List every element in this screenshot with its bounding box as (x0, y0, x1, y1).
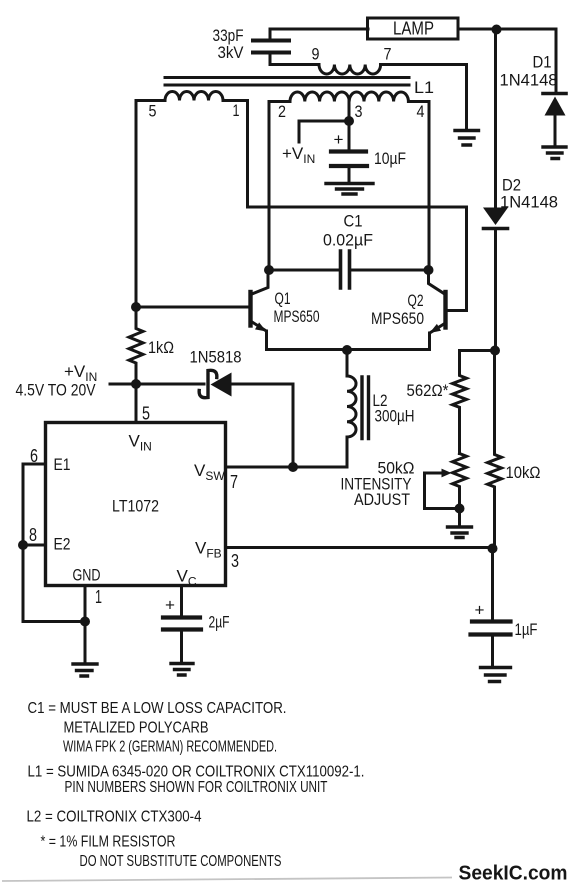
wire +VIN stub (299, 121, 349, 142)
svg-text:Q2: Q2 (408, 291, 424, 310)
svg-text:MPS650: MPS650 (274, 307, 320, 326)
diode D1 1N4148 (543, 29, 566, 147)
ground 2uF (171, 664, 193, 676)
wire +VIN node to diode (136, 383, 204, 386)
wire Q1 base (136, 306, 251, 309)
wire GND pin (84, 586, 87, 664)
svg-text:562Ω*: 562Ω* (407, 381, 449, 400)
op-amp U1 LT1072 box (46, 423, 226, 586)
wire 562 top connect (460, 349, 496, 352)
svg-text:5: 5 (149, 102, 157, 121)
ground pot (448, 527, 472, 538)
svg-text:E2: E2 (54, 535, 71, 554)
svg-text:0.02µF: 0.02µF (323, 231, 373, 250)
diode D3 1N5818 (199, 370, 293, 467)
svg-text:DO NOT SUBSTITUTE COMPONENTS: DO NOT SUBSTITUTE COMPONENTS (80, 853, 282, 870)
wire pin2 down to C1 left (268, 102, 271, 271)
svg-text:3kV: 3kV (218, 43, 245, 62)
svg-text:10kΩ: 10kΩ (506, 463, 541, 482)
potentiometer 50k (425, 454, 467, 509)
node pot bottom (455, 504, 465, 514)
svg-text:10µF: 10µF (374, 149, 406, 168)
wire 33pF to winding pin 9 (270, 63, 319, 66)
svg-text:E1: E1 (54, 455, 71, 474)
wire pin7 to ground (381, 65, 467, 131)
resistor 1k (129, 307, 143, 384)
svg-text:1N4148: 1N4148 (500, 193, 558, 212)
wire pin1 down and across to Q2 base riser (248, 101, 467, 311)
transistor Q2 MPS650 (429, 270, 449, 350)
node L2 top (342, 345, 352, 355)
svg-text:LAMP: LAMP (393, 19, 434, 39)
ground pin7 wire (455, 131, 479, 146)
node center tap (344, 116, 354, 126)
transformer L1 core (165, 78, 409, 86)
wire top left to LAMP (270, 28, 368, 31)
svg-text:C1: C1 (344, 212, 363, 231)
svg-text:1N4148: 1N4148 (500, 71, 558, 90)
svg-text:7: 7 (230, 472, 238, 492)
inductor L2 300uH (347, 350, 356, 467)
svg-text:1µF: 1µF (515, 620, 538, 639)
node top-right junction (492, 25, 502, 35)
node E2 (18, 540, 28, 550)
inductor L2 core (362, 377, 369, 439)
wire emitters bottom (267, 348, 430, 351)
svg-text:4: 4 (417, 102, 425, 121)
svg-text:3: 3 (355, 102, 363, 121)
svg-text:1: 1 (95, 587, 102, 607)
svg-text:WIMA FPK 2 (GERMAN) RECOMMENDE: WIMA FPK 2 (GERMAN) RECOMMENDED. (63, 739, 277, 756)
svg-text:C1 = MUST BE A LOW LOSS CAPACI: C1 = MUST BE A LOW LOSS CAPACITOR. (28, 700, 287, 717)
svg-text:* = 1% FILM RESISTOR: * = 1% FILM RESISTOR (41, 834, 176, 851)
diode D2 1N4148 (483, 208, 508, 351)
svg-text:D1: D1 (533, 53, 552, 72)
capacitor C1 0.02uF (269, 251, 429, 288)
svg-text:2µF: 2µF (209, 613, 230, 632)
svg-text:6: 6 (30, 446, 38, 466)
svg-text:1: 1 (233, 101, 240, 120)
wire L2 bottom to VSW (226, 466, 348, 469)
svg-text:MPS650: MPS650 (371, 309, 424, 328)
node right column (490, 346, 500, 356)
wire pot to ground (458, 509, 461, 527)
wire pin5 side down to Q1 base node (135, 101, 138, 308)
wire D2 column (494, 30, 497, 208)
transistor Q1 MPS650 (251, 270, 269, 350)
transformer L1 winding 2-3-4 (269, 92, 429, 102)
resistor 562 (453, 351, 467, 454)
svg-text:1N5818: 1N5818 (190, 348, 242, 367)
node VSW junction (288, 462, 298, 472)
svg-text:METALIZED POLYCARB: METALIZED POLYCARB (64, 720, 209, 737)
ground 10uF (326, 184, 373, 195)
svg-text:5: 5 (142, 404, 150, 424)
wire E1-E2 loop to gnd (23, 464, 85, 622)
svg-text:L2 = COILTRONIX CTX300-4: L2 = COILTRONIX CTX300-4 (27, 809, 202, 826)
wire pin5 VIN (135, 384, 138, 423)
svg-text:4.5V TO 20V: 4.5V TO 20V (16, 381, 97, 400)
transformer L1 winding 5-1 (136, 92, 248, 101)
node C1 right (424, 265, 434, 275)
node Q1 base / 1k top (131, 302, 141, 312)
wire LAMP to D1 column (458, 28, 556, 31)
svg-text:PIN NUMBERS SHOWN FOR COILTRON: PIN NUMBERS SHOWN FOR COILTRONIX UNIT (65, 779, 328, 796)
transformer L1 winding 9-7 (319, 65, 381, 75)
capacitor 33pF 3kV (253, 29, 289, 65)
capacitor 2uF (163, 586, 201, 663)
resistor 10k (488, 351, 502, 549)
ground GND pin (73, 664, 97, 676)
svg-text:Q1: Q1 (275, 289, 291, 308)
svg-text:+: + (475, 601, 485, 620)
LAMP box (368, 18, 459, 39)
capacitor 1uF (471, 549, 511, 668)
node GND join (80, 617, 90, 627)
node VFB junction (488, 544, 498, 554)
svg-text:2: 2 (278, 102, 286, 121)
svg-text:SeekIC.com: SeekIC.com (459, 863, 568, 885)
wire +VIN input lead (110, 383, 136, 386)
svg-text:+: + (165, 596, 175, 615)
wire E2 (23, 544, 46, 547)
svg-text:8: 8 (29, 525, 37, 545)
wire E1 (23, 463, 46, 466)
svg-text:300µH: 300µH (375, 407, 415, 426)
scan artifact faint line (2, 878, 452, 882)
svg-text:7: 7 (384, 45, 392, 64)
wire pin4 down to C1 right (428, 102, 431, 271)
svg-text:L1: L1 (414, 78, 434, 97)
svg-text:L1 = SUMIDA 6345-020 OR COILTR: L1 = SUMIDA 6345-020 OR COILTRONIX CTX11… (28, 764, 365, 781)
ground D1 (543, 147, 566, 159)
wire VFB pin3 (226, 546, 493, 549)
svg-text:+: + (334, 130, 344, 149)
capacitor 10uF (331, 121, 367, 183)
ground 1uF (481, 668, 511, 682)
svg-text:GND: GND (73, 566, 101, 585)
svg-text:9: 9 (312, 45, 320, 64)
svg-text:3: 3 (231, 551, 239, 571)
node C1 left (264, 265, 274, 275)
svg-text:LT1072: LT1072 (112, 497, 159, 516)
svg-text:ADJUST: ADJUST (354, 490, 410, 509)
node +VIN (131, 379, 141, 389)
wire center tap pin3 (348, 102, 351, 122)
svg-text:1kΩ: 1kΩ (148, 338, 174, 357)
